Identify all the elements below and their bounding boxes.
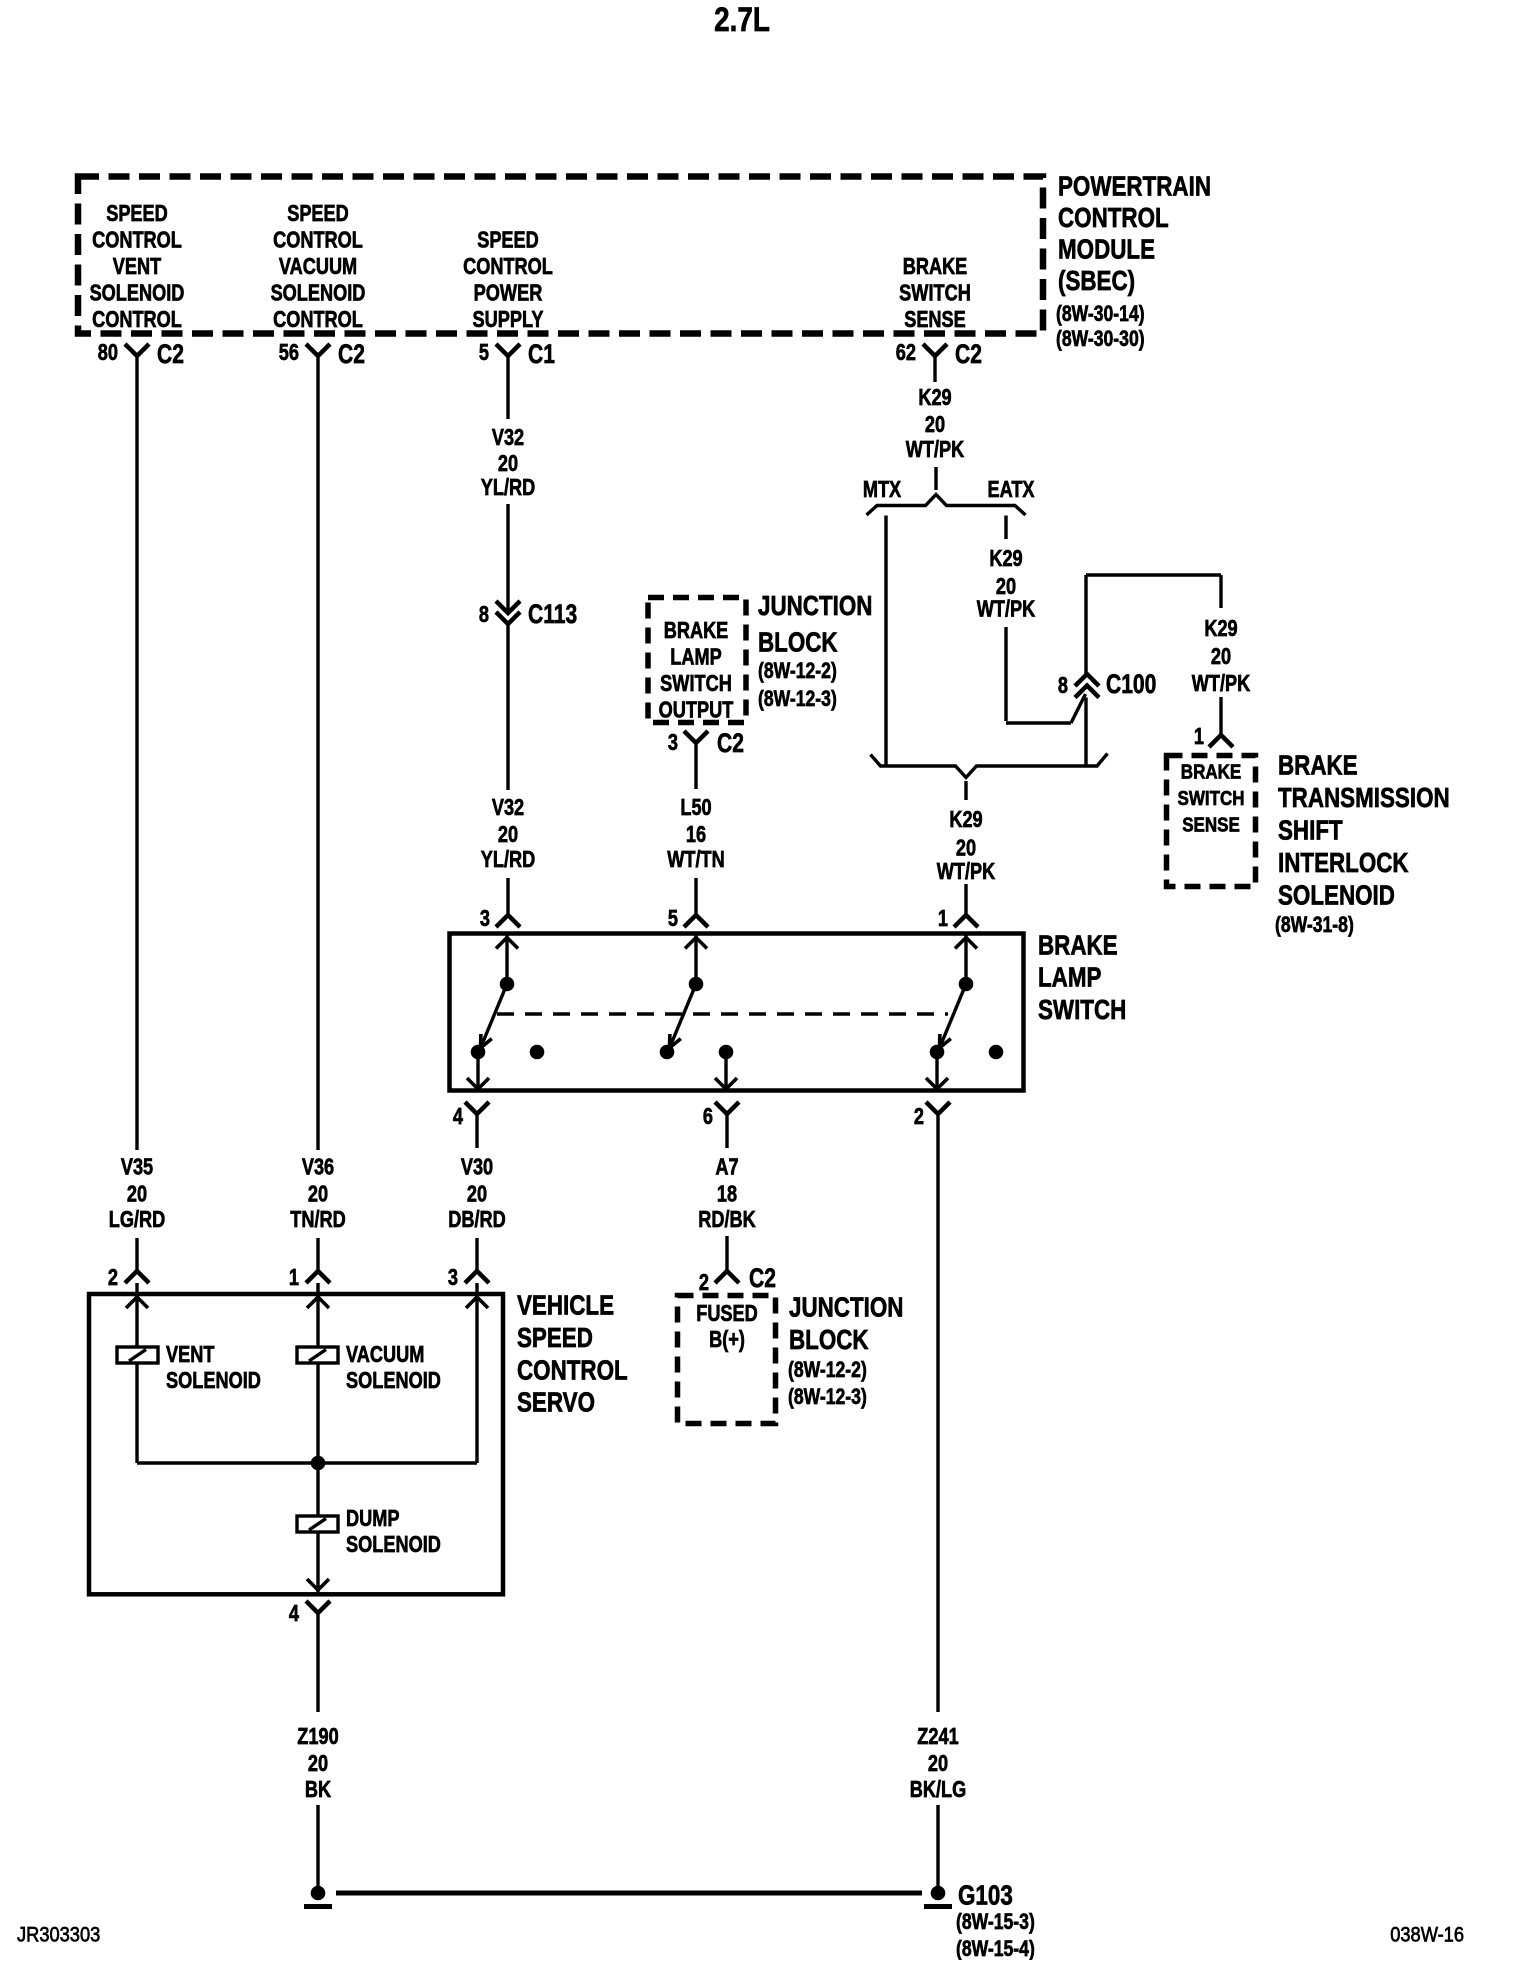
svg-text:SPEED: SPEED [477, 227, 539, 253]
svg-text:VENT: VENT [113, 254, 162, 280]
svg-text:20: 20 [498, 451, 518, 477]
svg-text:038W-16: 038W-16 [1390, 1923, 1464, 1946]
svg-text:BRAKE: BRAKE [1278, 750, 1358, 781]
svg-text:C2: C2 [157, 339, 184, 369]
svg-text:CONTROL: CONTROL [92, 227, 182, 253]
svg-text:SPEED: SPEED [517, 1323, 593, 1354]
svg-text:SWITCH: SWITCH [1038, 995, 1126, 1026]
svg-text:VENT: VENT [166, 1342, 215, 1368]
svg-text:(8W-31-8): (8W-31-8) [1275, 913, 1354, 937]
svg-text:(8W-12-2): (8W-12-2) [758, 659, 837, 683]
svg-text:LAMP: LAMP [1038, 962, 1102, 993]
svg-text:BLOCK: BLOCK [758, 627, 838, 658]
svg-text:(8W-15-4): (8W-15-4) [956, 1937, 1035, 1960]
svg-text:80: 80 [98, 340, 118, 366]
svg-text:WT/PK: WT/PK [937, 859, 996, 885]
svg-text:3: 3 [480, 906, 490, 932]
svg-text:Z241: Z241 [917, 1724, 958, 1750]
svg-text:(8W-30-30): (8W-30-30) [1056, 327, 1145, 351]
svg-text:(8W-15-3): (8W-15-3) [956, 1910, 1035, 1934]
svg-text:C1: C1 [528, 339, 555, 369]
svg-text:CONTROL: CONTROL [1058, 203, 1169, 234]
svg-text:(8W-12-3): (8W-12-3) [788, 1385, 867, 1409]
svg-text:SPEED: SPEED [287, 201, 349, 227]
svg-text:20: 20 [956, 835, 976, 861]
svg-text:SHIFT: SHIFT [1278, 815, 1343, 846]
svg-text:CONTROL: CONTROL [463, 254, 553, 280]
svg-text:K29: K29 [918, 385, 951, 411]
svg-text:TN/RD: TN/RD [290, 1207, 346, 1233]
svg-text:8: 8 [1058, 673, 1068, 699]
svg-text:20: 20 [498, 822, 518, 848]
svg-text:2: 2 [699, 1270, 709, 1296]
svg-text:DB/RD: DB/RD [448, 1207, 506, 1233]
svg-text:1: 1 [289, 1265, 299, 1291]
svg-text:SERVO: SERVO [517, 1387, 595, 1418]
svg-text:56: 56 [279, 340, 299, 366]
svg-text:SWITCH: SWITCH [899, 280, 971, 306]
svg-text:WT/TN: WT/TN [667, 847, 725, 873]
svg-text:POWER: POWER [474, 280, 543, 306]
svg-text:SUPPLY: SUPPLY [472, 307, 543, 333]
svg-text:POWERTRAIN: POWERTRAIN [1058, 171, 1211, 202]
svg-text:CONTROL: CONTROL [517, 1355, 628, 1386]
svg-text:62: 62 [896, 340, 916, 366]
svg-text:JUNCTION: JUNCTION [789, 1292, 903, 1323]
svg-text:5: 5 [668, 906, 678, 932]
svg-text:SENSE: SENSE [1182, 813, 1240, 836]
svg-text:16: 16 [686, 822, 706, 848]
svg-text:SOLENOID: SOLENOID [271, 280, 366, 306]
svg-text:2.7L: 2.7L [714, 0, 770, 38]
svg-text:V35: V35 [121, 1154, 153, 1180]
svg-text:SWITCH: SWITCH [1177, 787, 1244, 810]
svg-text:(8W-30-14): (8W-30-14) [1056, 302, 1145, 326]
svg-text:VACUUM: VACUUM [279, 254, 357, 280]
svg-text:6: 6 [703, 1104, 713, 1130]
svg-text:SWITCH: SWITCH [660, 671, 732, 697]
svg-text:CONTROL: CONTROL [273, 307, 363, 333]
svg-text:BRAKE: BRAKE [664, 618, 729, 644]
svg-text:V36: V36 [302, 1154, 334, 1180]
svg-text:L50: L50 [680, 795, 711, 821]
svg-text:V32: V32 [492, 795, 524, 821]
svg-text:20: 20 [928, 1751, 948, 1777]
svg-text:YL/RD: YL/RD [481, 475, 536, 501]
svg-text:OUTPUT: OUTPUT [659, 697, 734, 723]
svg-text:SOLENOID: SOLENOID [346, 1532, 441, 1558]
svg-text:MODULE: MODULE [1058, 234, 1155, 265]
svg-text:SOLENOID: SOLENOID [346, 1368, 441, 1394]
svg-text:RD/BK: RD/BK [698, 1207, 756, 1233]
svg-text:SOLENOID: SOLENOID [166, 1368, 261, 1394]
svg-text:BLOCK: BLOCK [789, 1325, 869, 1356]
svg-text:(8W-12-3): (8W-12-3) [758, 687, 837, 711]
svg-text:8: 8 [479, 602, 489, 628]
svg-text:LAMP: LAMP [670, 644, 722, 670]
svg-text:G103: G103 [958, 1880, 1013, 1911]
svg-text:C113: C113 [528, 599, 577, 629]
svg-text:1: 1 [1194, 724, 1204, 750]
svg-text:C2: C2 [955, 339, 982, 369]
svg-text:2: 2 [914, 1104, 924, 1130]
svg-text:MTX: MTX [863, 477, 901, 503]
svg-text:K29: K29 [1204, 616, 1237, 642]
svg-text:20: 20 [467, 1181, 487, 1207]
svg-text:4: 4 [289, 1601, 300, 1627]
svg-text:SENSE: SENSE [904, 307, 966, 333]
svg-text:3: 3 [668, 730, 678, 756]
svg-text:FUSED: FUSED [696, 1301, 758, 1327]
svg-text:JR303303: JR303303 [17, 1923, 100, 1946]
svg-text:WT/PK: WT/PK [977, 596, 1036, 622]
svg-text:A7: A7 [715, 1154, 738, 1180]
svg-text:1: 1 [938, 906, 948, 932]
svg-text:20: 20 [1211, 644, 1231, 670]
svg-text:C100: C100 [1106, 669, 1156, 699]
svg-text:(8W-12-2): (8W-12-2) [788, 1358, 867, 1382]
svg-text:CONTROL: CONTROL [273, 227, 363, 253]
svg-text:VACUUM: VACUUM [346, 1342, 424, 1368]
svg-text:BRAKE: BRAKE [1181, 760, 1241, 783]
svg-text:INTERLOCK: INTERLOCK [1278, 848, 1409, 879]
svg-text:DUMP: DUMP [346, 1506, 400, 1532]
svg-text:C2: C2 [749, 1263, 776, 1293]
svg-text:CONTROL: CONTROL [92, 307, 182, 333]
svg-text:V30: V30 [461, 1154, 493, 1180]
svg-text:20: 20 [127, 1181, 147, 1207]
svg-text:(SBEC): (SBEC) [1058, 266, 1135, 297]
svg-text:3: 3 [448, 1265, 458, 1291]
svg-text:4: 4 [453, 1104, 464, 1130]
svg-text:18: 18 [717, 1181, 737, 1207]
svg-text:SOLENOID: SOLENOID [90, 280, 185, 306]
svg-text:BRAKE: BRAKE [1038, 930, 1118, 961]
svg-text:2: 2 [108, 1265, 118, 1291]
svg-text:20: 20 [925, 412, 945, 438]
svg-text:K29: K29 [989, 546, 1022, 572]
svg-text:20: 20 [308, 1751, 328, 1777]
svg-text:BK/LG: BK/LG [910, 1777, 967, 1803]
svg-text:TRANSMISSION: TRANSMISSION [1278, 783, 1450, 814]
svg-text:5: 5 [479, 340, 489, 366]
svg-text:SOLENOID: SOLENOID [1278, 880, 1395, 911]
svg-text:EATX: EATX [987, 477, 1034, 503]
svg-text:WT/PK: WT/PK [906, 437, 965, 463]
svg-text:C2: C2 [338, 339, 365, 369]
svg-text:BK: BK [305, 1777, 331, 1803]
svg-text:C2: C2 [717, 728, 744, 758]
svg-text:K29: K29 [949, 807, 982, 833]
svg-text:V32: V32 [492, 425, 524, 451]
svg-text:20: 20 [308, 1181, 328, 1207]
svg-text:SPEED: SPEED [106, 201, 168, 227]
svg-text:LG/RD: LG/RD [109, 1207, 166, 1233]
svg-text:JUNCTION: JUNCTION [758, 591, 872, 622]
svg-text:VEHICLE: VEHICLE [517, 1290, 614, 1321]
svg-text:B(+): B(+) [709, 1327, 745, 1353]
svg-text:Z190: Z190 [297, 1724, 338, 1750]
svg-text:YL/RD: YL/RD [481, 847, 536, 873]
svg-text:BRAKE: BRAKE [903, 254, 968, 280]
svg-text:WT/PK: WT/PK [1192, 671, 1251, 697]
